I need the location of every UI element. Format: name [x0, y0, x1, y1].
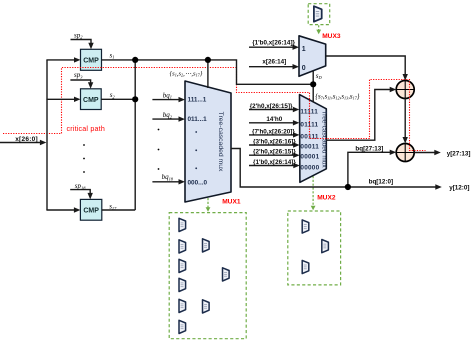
- svg-text:CMP: CMP: [83, 97, 99, 104]
- svg-text:14'h0: 14'h0: [266, 116, 282, 123]
- wire left bus vertical: [46, 60, 48, 210]
- wire bq[27:13] to adder U2 left: [348, 150, 396, 187]
- svg-text:s1: s1: [110, 51, 115, 59]
- wire bq2 input: [152, 116, 185, 121]
- svg-text:{3'h0,x[26:16]}: {3'h0,x[26:16]}: [253, 138, 296, 145]
- adder U2 (bottom): [396, 144, 414, 162]
- svg-text:CMP: CMP: [83, 58, 99, 65]
- svg-text:11111: 11111: [300, 109, 318, 116]
- svg-text:{1'b0,x[26:14]}: {1'b0,x[26:14]}: [253, 159, 296, 166]
- wire MUX2 input 1: [249, 107, 299, 112]
- wire adder U2 output y[27:13]: [414, 150, 441, 155]
- svg-text:{s1,s2,⋯,s17}: {s1,s2,⋯,s17}: [170, 70, 203, 77]
- wire s17 from CMP18: [102, 209, 135, 211]
- wire x[26:0] input: [0, 140, 46, 145]
- svg-text:bq[12:0]: bq[12:0]: [369, 178, 394, 185]
- ellipsis bq column: [158, 129, 160, 170]
- svg-text:CMP: CMP: [83, 208, 99, 215]
- wire s2 from CMP2: [101, 98, 135, 100]
- svg-text:Tree-cascaded mux: Tree-cascaded mux: [217, 112, 224, 172]
- svg-text:y[12:0]: y[12:0]: [449, 184, 469, 191]
- wire bq18 input: [152, 179, 185, 184]
- svg-text:s17: s17: [109, 203, 117, 211]
- node sD junction: [310, 81, 316, 87]
- wire bus to CMP1 input: [46, 57, 80, 62]
- svg-text:critical path: critical path: [67, 125, 105, 133]
- svg-text:MUX1: MUX1: [222, 198, 241, 205]
- mux box MUX2 (green dashed): [288, 211, 341, 285]
- svg-text:{7'h0,x[26:20]}: {7'h0,x[26:20]}: [252, 128, 295, 135]
- svg-text:00001: 00001: [300, 154, 319, 161]
- ellipsis CMP column: [83, 144, 85, 173]
- wire MUX2 input 6: [249, 163, 300, 168]
- wire adder U1 to adder U2: [403, 99, 408, 144]
- adder U1 (top): [396, 81, 414, 99]
- wire bq1 input: [152, 97, 185, 102]
- wire sD select up to MUX3 and down to MUX2: [312, 71, 314, 102]
- svg-text:x[26:0]: x[26:0]: [15, 136, 38, 143]
- wire MUX3 input 1: [249, 45, 299, 50]
- svg-text:00011: 00011: [300, 144, 319, 151]
- svg-text:1: 1: [302, 46, 306, 53]
- wire MUX1 output bq to y[12:0]: [231, 149, 442, 190]
- svg-text:{2'h0,x[26:15]}: {2'h0,x[26:15]}: [250, 103, 293, 110]
- svg-text:{1'b0,x[26:14]}: {1'b0,x[26:14]}: [252, 39, 295, 46]
- mux MUX2 tree-cascaded trapezoid: [300, 95, 327, 183]
- wire MUX2 input 3: [249, 132, 300, 137]
- green arrow MUX3: [316, 25, 321, 34]
- critical path (red dotted): [3, 68, 426, 151]
- svg-text:MUX2: MUX2: [317, 194, 336, 201]
- wire bus to CMP2 input: [46, 97, 80, 102]
- wire sp2 to CMP1: [71, 40, 94, 50]
- wire MUX2 output to adder U1 left: [326, 87, 396, 140]
- svg-text:111...1: 111...1: [188, 96, 207, 103]
- svg-text:bq18: bq18: [162, 173, 174, 181]
- node MUX1 select junction: [205, 57, 211, 63]
- mini mux icon inside MUX3 box: [314, 6, 322, 22]
- svg-text:011...1: 011...1: [188, 116, 208, 123]
- wire MUX2 input 4: [249, 142, 300, 147]
- svg-text:{2'h0,x[26:15]}: {2'h0,x[26:15]}: [253, 148, 296, 155]
- comparator CMP2: [81, 89, 102, 110]
- mux MUX3 2:1 trapezoid: [299, 36, 326, 77]
- green arrow MUX2: [311, 176, 316, 210]
- svg-text:000...0: 000...0: [188, 180, 208, 187]
- wire s1 from CMP1 to sD node: [102, 60, 314, 84]
- wire sp3 to CMP2: [70, 80, 93, 89]
- svg-text:sD: sD: [316, 72, 323, 80]
- mux box MUX1 (green dashed): [169, 213, 246, 339]
- ellipsis inside MUX1: [195, 131, 197, 169]
- green arrow MUX1: [206, 198, 211, 212]
- svg-text:MUX3: MUX3: [322, 33, 341, 40]
- node s1 bus junction: [132, 57, 138, 63]
- comparator CMP1: [81, 49, 102, 70]
- wire MUX2 input 2: [249, 120, 299, 125]
- svg-text:01111: 01111: [300, 121, 318, 128]
- wire s bus vertical: [134, 60, 136, 210]
- svg-text:y[27:13]: y[27:13]: [447, 151, 471, 158]
- wire MUX2 input 5: [249, 153, 300, 158]
- svg-text:{s7,s11,s12,s13,s17}: {s7,s11,s12,s13,s17}: [315, 94, 360, 101]
- svg-text:s2: s2: [110, 91, 116, 99]
- node s2 bus junction: [132, 96, 138, 102]
- wire MUX3 output to adder U1 top: [326, 56, 408, 81]
- svg-text:Tree-cascaded mux: Tree-cascaded mux: [320, 110, 327, 168]
- svg-text:bq1: bq1: [163, 91, 172, 99]
- mux MUX1 tree-cascaded trapezoid: [185, 81, 231, 202]
- wire select into MUX1: [207, 60, 209, 88]
- svg-text:bq2: bq2: [163, 111, 173, 119]
- svg-text:0: 0: [302, 65, 306, 72]
- wire MUX3 input 0: [249, 64, 299, 69]
- mini mux icons in MUX1 box column 2: [203, 239, 210, 252]
- mini mux icon in MUX1 box column 3: [223, 268, 230, 281]
- svg-text:sp18: sp18: [75, 182, 86, 190]
- mux box MUX3 (green dashed): [308, 4, 330, 25]
- svg-text:00000: 00000: [300, 165, 319, 172]
- svg-text:sp2: sp2: [74, 31, 83, 39]
- comparator CMP18: [80, 199, 101, 220]
- mini mux icons in MUX2 box: [302, 220, 309, 233]
- mini mux icons in MUX1 box column 1: [179, 218, 186, 231]
- node bq junction: [345, 184, 351, 190]
- svg-text:x[26:14]: x[26:14]: [262, 58, 286, 65]
- wire sp18 to CMP18: [70, 190, 93, 200]
- svg-text:bq[27:13]: bq[27:13]: [355, 145, 383, 152]
- svg-text:sp3: sp3: [74, 71, 83, 79]
- wire bus to CMP18 input: [46, 207, 80, 212]
